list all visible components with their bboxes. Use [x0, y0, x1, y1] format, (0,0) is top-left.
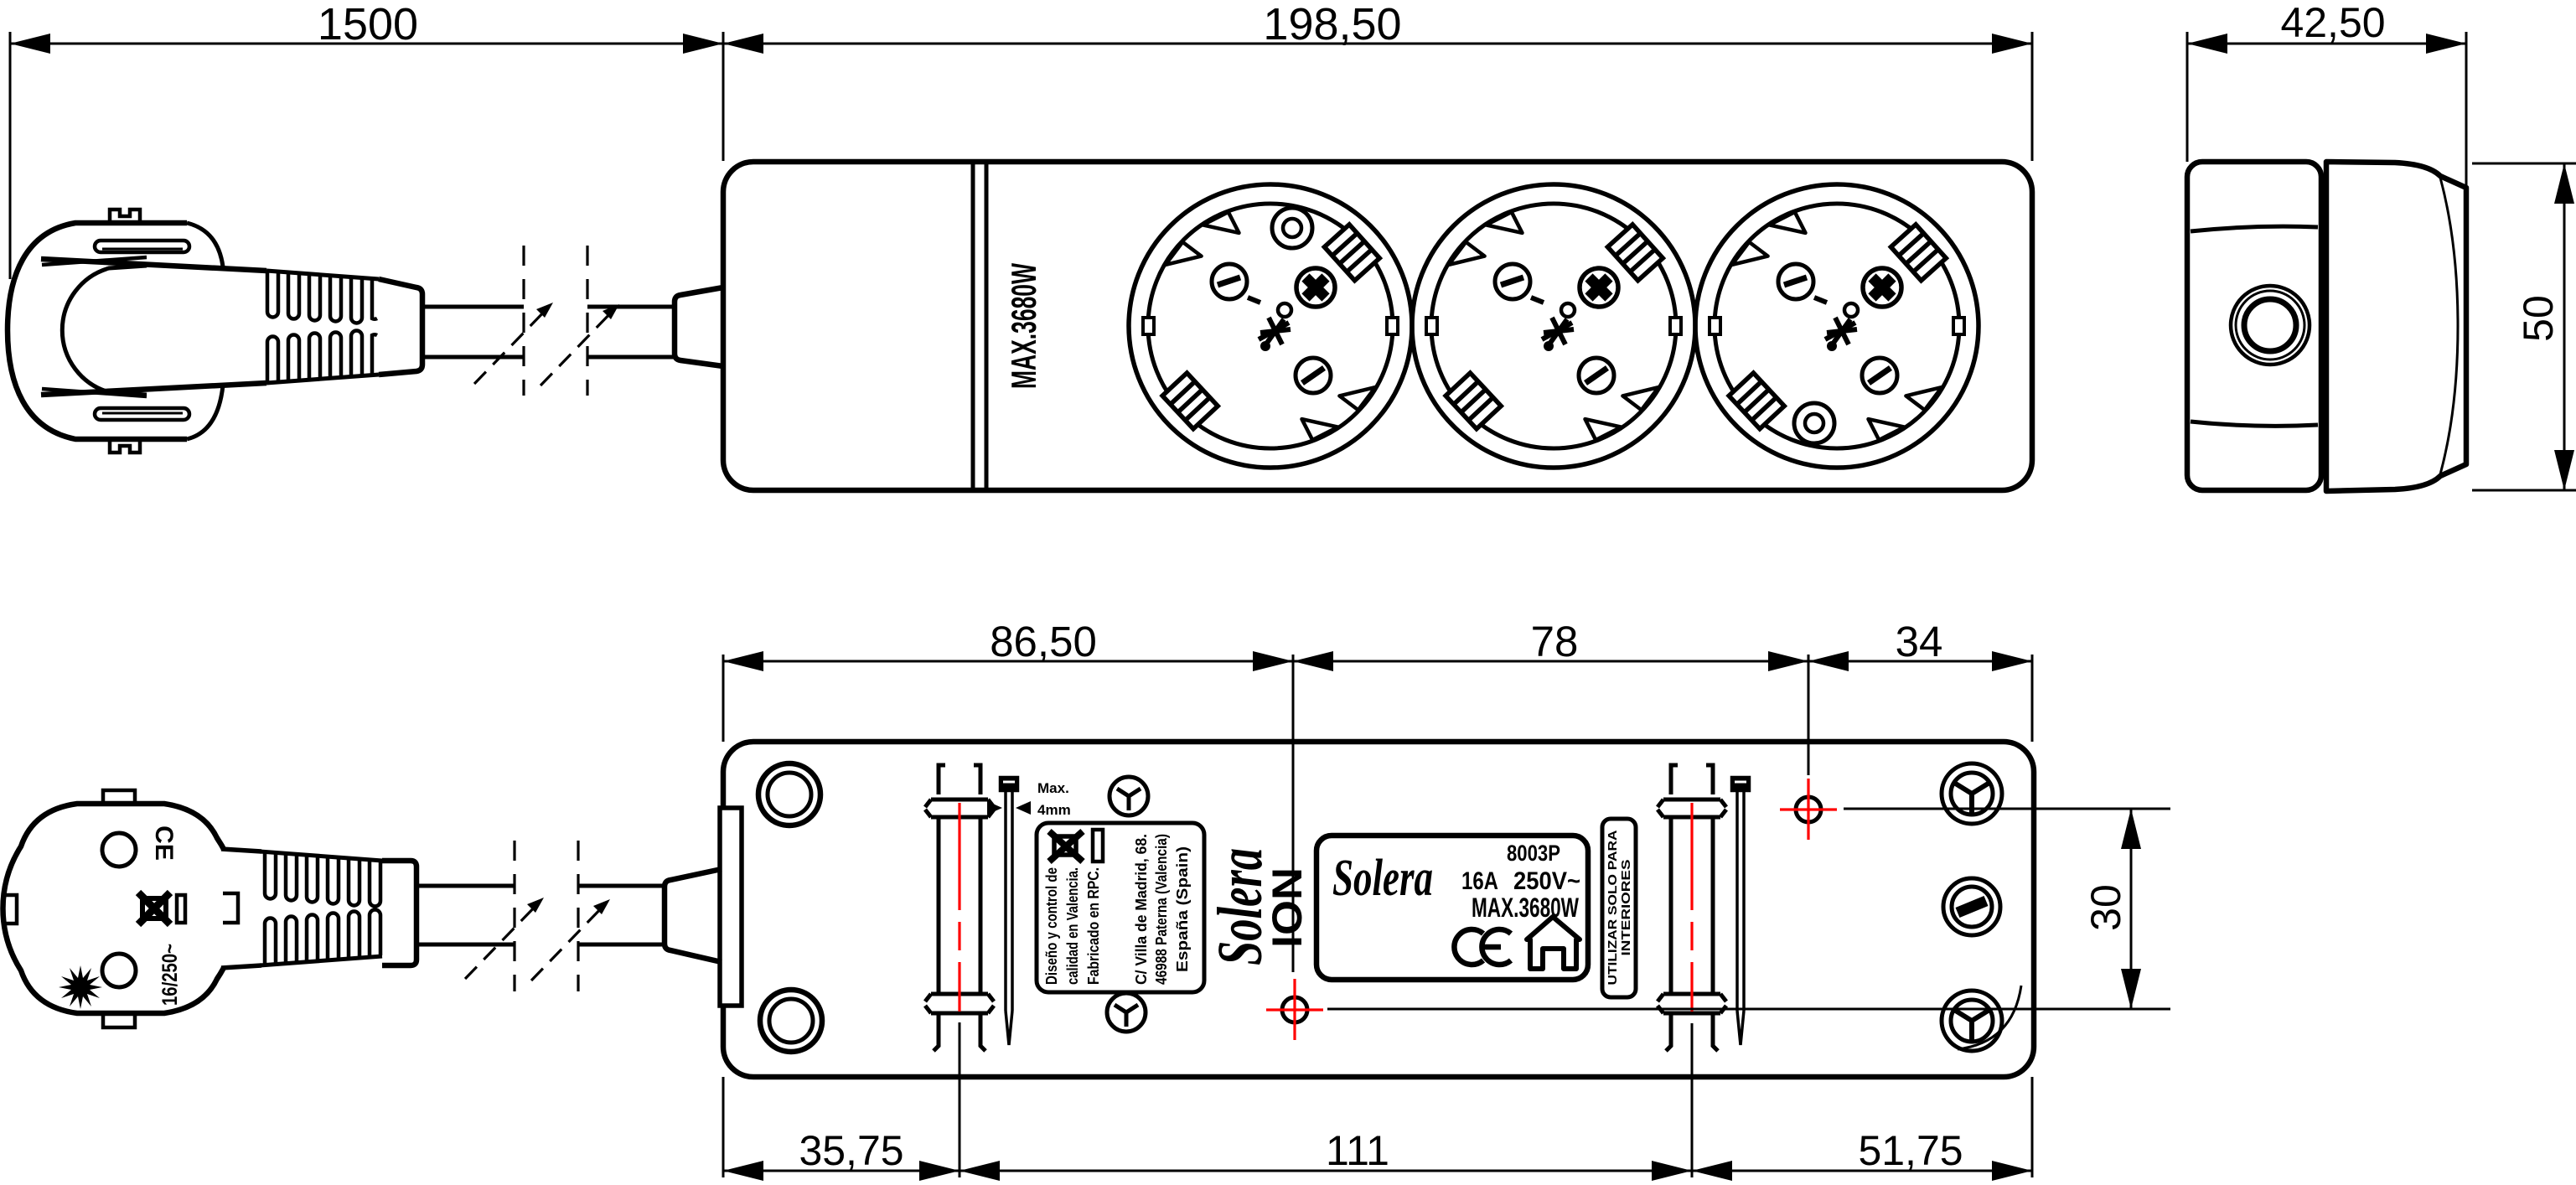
rear cable [416, 841, 665, 991]
socket 1 [1129, 184, 1412, 468]
rear cable neck [665, 869, 722, 962]
svg-text:Max.: Max. [1037, 780, 1069, 796]
side view base [2187, 162, 2321, 490]
dimension 30 [1327, 809, 2170, 1009]
rear collar [382, 861, 416, 965]
pin holes [102, 833, 136, 867]
crosshair left [1266, 979, 1323, 1040]
svg-text:Fabricado en RPC.: Fabricado en RPC. [1085, 867, 1102, 985]
left tab [3, 895, 17, 924]
svg-text:CE: CE [150, 825, 178, 861]
top tab [110, 210, 140, 223]
collar (top plug) [379, 279, 422, 375]
svg-text:35,75: 35,75 [799, 1127, 903, 1174]
star [59, 965, 102, 1009]
svg-text:16/250~: 16/250~ [158, 944, 182, 1006]
cable gland rings [2231, 286, 2310, 365]
svg-text:MAX.3680W: MAX.3680W [1472, 893, 1580, 923]
dimension 34 [1808, 618, 2032, 775]
rear strain relief ribs [260, 851, 382, 965]
dimension 42,50 (side width) [2187, 0, 2466, 189]
corner detail arc [1958, 986, 2021, 1049]
svg-text:86,50: 86,50 [990, 618, 1097, 665]
rear plug face [3, 790, 261, 1027]
svg-text:16A: 16A [1461, 867, 1498, 895]
top tab [103, 790, 135, 805]
svg-text:UTILIZAR SOLO PARA: UTILIZAR SOLO PARA [1606, 830, 1620, 985]
svg-text:50: 50 [2515, 295, 2562, 342]
CE logo [1454, 929, 1511, 965]
svg-text:C/ Villa de Madrid, 68.: C/ Villa de Madrid, 68. [1133, 834, 1150, 985]
bottom tab [103, 1012, 135, 1027]
socket 1 pilot hole [1272, 208, 1312, 248]
break symbol [522, 246, 525, 396]
socket 2 [1412, 184, 1695, 468]
svg-text:Solera: Solera [1332, 850, 1433, 907]
dimension 198,50 (strip length) [723, 0, 2032, 161]
grip edges [41, 259, 266, 271]
inner arc [62, 266, 147, 395]
partition double line [973, 163, 986, 489]
small tri screw bottom [1107, 993, 1146, 1032]
dimension 35,75 [723, 1022, 960, 1181]
top slot [95, 241, 189, 252]
rear screw hole top-left [758, 763, 820, 825]
plug grip wedge [221, 849, 261, 968]
rear screw hole bottom-left [760, 990, 822, 1052]
rear cable boss [720, 808, 742, 1006]
svg-text:30: 30 [2082, 884, 2129, 931]
keyhole slot 2 [1658, 765, 1726, 1051]
keyhole slot 1 [925, 765, 994, 1051]
right tab [223, 893, 238, 923]
crosshair right [1780, 779, 1837, 840]
main label [1316, 836, 1588, 980]
dimension 50 (side height) [2472, 163, 2576, 490]
svg-text:78: 78 [1531, 618, 1579, 665]
socket 3 [1695, 184, 1979, 468]
cable (top view) [422, 246, 675, 396]
rear body [723, 742, 2034, 1077]
svg-text:Diseño y control de: Diseño y control de [1043, 867, 1060, 985]
dimension 78 [1293, 618, 1808, 972]
svg-text:España (Spain): España (Spain) [1174, 846, 1191, 972]
nail 1 [1001, 778, 1017, 1045]
info label [1037, 823, 1204, 992]
svg-text:198,50: 198,50 [1263, 0, 1401, 49]
house symbol [1527, 917, 1580, 969]
nail 1 pointers [987, 780, 1071, 818]
svg-text:ION: ION [1264, 867, 1311, 948]
strain relief ribs (top plug) [266, 271, 379, 383]
svg-text:8003P: 8003P [1507, 841, 1560, 866]
bottom slot [95, 408, 189, 420]
right screw bottom [1942, 991, 2002, 1051]
dimension 86,50 [723, 618, 1293, 742]
plug body (top view) [8, 210, 266, 453]
bottom tab [110, 439, 140, 453]
side view rocker front [2326, 162, 2466, 491]
svg-text:calidad en Valencia.: calidad en Valencia. [1064, 867, 1081, 985]
svg-text:42,50: 42,50 [2280, 0, 2385, 46]
crossed symbol [138, 893, 170, 924]
svg-text:111: 111 [1326, 1127, 1389, 1174]
right screw middle (slotted) [1943, 878, 2000, 935]
svg-text:INTERIORES: INTERIORES [1619, 860, 1633, 956]
small tri screw top [1110, 777, 1148, 815]
strip body (top view) [723, 162, 2032, 490]
svg-text:51,75: 51,75 [1858, 1127, 1963, 1174]
cable entry neck (top strip) [675, 287, 723, 366]
svg-text:4mm: 4mm [1037, 802, 1071, 818]
svg-text:250V~: 250V~ [1513, 867, 1580, 895]
nail 2 [1732, 778, 1749, 1045]
socket 3 pilot hole [1794, 403, 1834, 443]
dimension 1500 (cord length) [10, 0, 723, 279]
svg-text:1500: 1500 [318, 0, 418, 49]
svg-text:MAX.3680W: MAX.3680W [1004, 263, 1043, 389]
right screw top [1942, 763, 2002, 824]
svg-text:46988 Paterna (Valencia): 46988 Paterna (Valencia) [1153, 834, 1170, 985]
dimension 111 [960, 1023, 1692, 1181]
UTILIZAR label [1602, 819, 1636, 997]
svg-text:34: 34 [1896, 618, 1943, 665]
dimension 51,75 [1692, 1077, 2032, 1181]
